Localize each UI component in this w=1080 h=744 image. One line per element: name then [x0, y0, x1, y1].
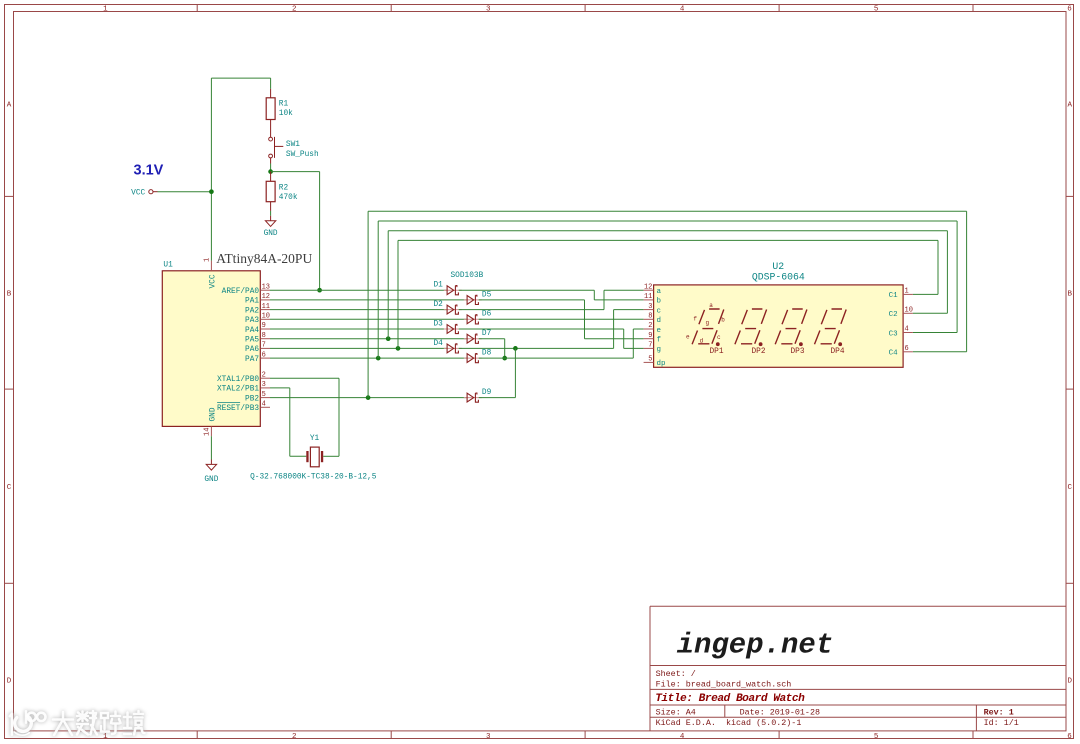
svg-text:R2: R2	[279, 185, 289, 193]
svg-text:QDSP-6064: QDSP-6064	[752, 272, 805, 283]
svg-text:8: 8	[262, 332, 266, 340]
svg-text:10: 10	[262, 313, 270, 321]
wire D9 riser to D4 net	[479, 397, 516, 399]
U1 pin 7 PA6	[260, 347, 270, 349]
svg-text:ingep.net: ingep.net	[677, 629, 834, 662]
U2 pin 6 C4	[903, 351, 913, 353]
wire D6 to pin d net	[479, 318, 644, 320]
svg-text:4: 4	[680, 733, 685, 741]
diode D9	[464, 397, 482, 399]
svg-text:KiCad E.D.A. kicad (5.0.2)-1: KiCad E.D.A. kicad (5.0.2)-1	[656, 718, 802, 728]
svg-text:7: 7	[648, 342, 652, 350]
U2 pin 8 d	[644, 318, 654, 320]
svg-text:File: bread_board_watch.sch: File: bread_board_watch.sch	[656, 679, 792, 689]
svg-text:6: 6	[1067, 733, 1072, 741]
diode D8	[464, 357, 482, 359]
wire D8 to pin e net	[479, 357, 634, 359]
svg-text:PA7: PA7	[245, 356, 259, 364]
wire PA6 to C1 net	[397, 240, 399, 348]
wire PA7 to D8	[270, 357, 467, 359]
svg-text:470k: 470k	[279, 194, 298, 202]
wire D2 to pin a net	[459, 309, 604, 311]
svg-text:12: 12	[262, 293, 270, 301]
svg-text:6: 6	[262, 351, 266, 359]
svg-text:R1: R1	[279, 101, 289, 109]
svg-text:D5: D5	[482, 291, 492, 299]
svg-text:Id: 1/1: Id: 1/1	[984, 718, 1019, 728]
U2 digit 3	[775, 309, 807, 344]
svg-text:11: 11	[262, 303, 270, 311]
U1 pin 12 PA1	[260, 299, 270, 301]
svg-text:13: 13	[262, 283, 270, 291]
svg-text:DP1: DP1	[709, 348, 723, 356]
diode D7	[464, 338, 482, 340]
wire top to R1	[211, 77, 270, 79]
svg-text:4: 4	[905, 326, 909, 334]
svg-text:1: 1	[103, 6, 108, 14]
wire PA2 to D2	[270, 309, 447, 311]
wire PA3 to D6	[270, 318, 467, 320]
svg-text:3: 3	[648, 303, 652, 311]
ground symbol below R2	[270, 216, 272, 221]
wire PB2 to C4 net	[367, 211, 369, 397]
svg-text:D1: D1	[434, 282, 444, 290]
svg-text:dp: dp	[657, 360, 666, 368]
svg-text:AREF/PA0: AREF/PA0	[222, 288, 260, 296]
svg-text:2: 2	[292, 6, 297, 14]
switch SW1	[269, 137, 273, 141]
diode D4	[444, 347, 462, 349]
diode D2	[444, 309, 462, 311]
U1 pin 8 PA5	[260, 338, 270, 340]
wire PA5 to C2 net	[387, 231, 389, 339]
svg-text:Date: 2019-01-28: Date: 2019-01-28	[740, 707, 820, 717]
svg-text:C: C	[7, 484, 12, 492]
junction on AREF/PA0	[317, 288, 322, 293]
wire PA7 to C3 net	[377, 221, 379, 358]
svg-text:A: A	[1068, 102, 1073, 110]
svg-text:C: C	[1068, 484, 1073, 492]
junction D7 joins D8 net	[502, 356, 507, 361]
junction PA6 riser	[396, 346, 401, 351]
resistor R1	[266, 98, 275, 120]
svg-text:d: d	[700, 337, 704, 344]
svg-text:11: 11	[644, 293, 652, 301]
wire vertical VCC rail	[210, 78, 212, 261]
IC U2 body	[654, 285, 904, 367]
wire AREF/PA0 to D1	[270, 289, 447, 291]
svg-text:GND: GND	[264, 230, 278, 238]
U2 decimal point DP4	[838, 342, 842, 346]
U2 decimal point DP2	[759, 342, 763, 346]
U2 pin 9 f	[644, 338, 654, 340]
U2 pin 10 C2	[903, 312, 913, 314]
U1 pin 13 AREF/PA0	[260, 289, 270, 291]
svg-text:e: e	[686, 333, 690, 340]
svg-text:PA6: PA6	[245, 346, 259, 354]
svg-text:6: 6	[1067, 6, 1072, 14]
svg-text:D2: D2	[434, 301, 444, 309]
U2 pin 12 a	[644, 289, 654, 291]
svg-text:PB2: PB2	[245, 395, 259, 403]
svg-text:5: 5	[648, 356, 652, 364]
junction below SW1	[268, 169, 273, 174]
U2 pin 7 g	[644, 347, 654, 349]
svg-text:Rev: 1: Rev: 1	[984, 707, 1014, 717]
svg-text:b: b	[657, 298, 662, 306]
svg-text:4: 4	[680, 6, 685, 14]
svg-text:f: f	[693, 316, 697, 323]
ground symbol below U1	[210, 460, 212, 465]
svg-text:1: 1	[905, 288, 909, 296]
svg-text:XTAL2/PB1: XTAL2/PB1	[217, 386, 259, 394]
svg-text:12: 12	[644, 283, 652, 291]
U2 digit 4	[815, 309, 847, 344]
svg-text:5: 5	[262, 391, 266, 399]
svg-text:a: a	[709, 302, 713, 309]
wire VCC to junction	[153, 191, 158, 193]
svg-text:D4: D4	[434, 340, 444, 348]
svg-text:2: 2	[292, 733, 297, 741]
wire U1 GND down	[210, 436, 212, 459]
U2 pin 3 c	[644, 309, 654, 311]
svg-text:4: 4	[262, 401, 266, 409]
svg-text:c: c	[657, 307, 662, 315]
svg-text:b: b	[721, 317, 725, 324]
IC U1 body	[162, 271, 260, 427]
U1 pin 9 PA4	[260, 328, 270, 330]
wire D7 joins D8 net	[479, 338, 505, 340]
U1 pin 3 XTAL2/PB1	[260, 387, 270, 389]
svg-text:VCC: VCC	[131, 189, 145, 197]
svg-text:D9: D9	[482, 389, 492, 397]
wire XTAL2 net	[270, 387, 290, 389]
diode D3	[444, 328, 462, 330]
svg-text:SOD103B: SOD103B	[451, 272, 484, 280]
svg-text:RESET/PB3: RESET/PB3	[217, 405, 259, 413]
resistor R2	[270, 172, 272, 182]
svg-text:GND: GND	[204, 476, 218, 484]
U2 pin 2 e	[644, 328, 654, 330]
svg-text:DP4: DP4	[830, 348, 844, 356]
svg-text:1: 1	[203, 258, 211, 262]
wire PA4 to D3	[270, 328, 447, 330]
svg-text:SW1: SW1	[286, 141, 300, 149]
svg-text:D8: D8	[482, 350, 492, 358]
junction D9 joins D4 net	[513, 346, 518, 351]
svg-text:e: e	[657, 327, 662, 335]
junction PA7 riser	[376, 356, 381, 361]
wire R2 bottom lead	[270, 202, 272, 211]
wire junction to AREF riser	[271, 171, 320, 173]
wire SW1 to junction	[270, 158, 272, 164]
title block outline	[650, 606, 1066, 731]
wire D5 to pin f net	[479, 299, 585, 301]
U2 pin 4 C3	[903, 332, 913, 334]
U2 digit 1	[692, 309, 724, 344]
wire R1 top lead	[270, 78, 272, 89]
U1 pin 6 PA7	[260, 357, 270, 359]
svg-text:PA2: PA2	[245, 307, 259, 315]
svg-text:Title: Bread Board Watch: Title: Bread Board Watch	[655, 693, 805, 705]
svg-text:Size: A4: Size: A4	[656, 707, 696, 717]
svg-text:C2: C2	[889, 311, 898, 319]
frame column ticks top/bottom	[196, 5, 198, 12]
svg-text:1: 1	[103, 733, 108, 741]
diode D1	[444, 289, 462, 291]
svg-text:D: D	[7, 677, 12, 685]
svg-text:VCC: VCC	[210, 274, 218, 288]
U1 pin 1 VCC top	[210, 261, 212, 271]
wire D1 to pin b net	[459, 289, 595, 291]
U2 pin 1 C1	[903, 293, 913, 295]
U1 pin 10 PA3	[260, 318, 270, 320]
svg-text:10: 10	[905, 307, 913, 315]
U2 decimal point DP3	[799, 342, 803, 346]
wire PA6 to D4	[270, 347, 447, 349]
svg-text:g: g	[657, 346, 662, 354]
svg-text:5: 5	[874, 6, 879, 14]
power flag VCC	[149, 190, 153, 194]
junction VCC rail	[209, 189, 214, 194]
svg-text:A: A	[7, 102, 12, 110]
svg-text:SW_Push: SW_Push	[286, 151, 319, 159]
wire PA1 to D5	[270, 299, 467, 301]
svg-text:10k: 10k	[279, 110, 293, 118]
svg-text:PA4: PA4	[245, 327, 259, 335]
svg-text:XTAL1/PB0: XTAL1/PB0	[217, 376, 259, 384]
svg-text:d: d	[657, 317, 662, 325]
svg-text:2: 2	[648, 322, 652, 330]
svg-text:Q-32.768000K-TC38-20-B-12,5: Q-32.768000K-TC38-20-B-12,5	[250, 473, 377, 481]
svg-text:D6: D6	[482, 311, 492, 319]
svg-text:6: 6	[905, 345, 909, 353]
junction PA5 riser	[386, 336, 391, 341]
wire PA5 to D7	[270, 338, 467, 340]
svg-text:B: B	[1068, 290, 1073, 298]
junction PB2 riser	[366, 395, 371, 400]
svg-text:3: 3	[486, 6, 491, 14]
svg-text:D7: D7	[482, 330, 492, 338]
U1 pin 4 RESET/PB3	[260, 406, 270, 408]
svg-text:3: 3	[486, 733, 491, 741]
svg-text:14: 14	[203, 428, 211, 436]
svg-text:a: a	[657, 288, 662, 296]
svg-text:C1: C1	[889, 292, 899, 300]
svg-text:g: g	[705, 319, 709, 326]
U2 decimal point DP1	[716, 342, 720, 346]
U1 pin 2 XTAL1/PB0	[260, 377, 270, 379]
svg-text:5: 5	[874, 733, 879, 741]
U1 pin 5 PB2	[260, 397, 270, 399]
watermark logo and text	[10, 711, 145, 735]
svg-text:f: f	[657, 337, 662, 345]
svg-text:Sheet: /: Sheet: /	[656, 669, 696, 679]
wire D4 to pin c net	[459, 347, 614, 349]
wire PB2 to D9	[270, 397, 467, 399]
svg-text:3: 3	[262, 381, 266, 389]
svg-text:D: D	[1068, 677, 1073, 685]
svg-text:2: 2	[262, 371, 266, 379]
wire R1 bottom lead	[270, 120, 272, 138]
diode D5	[464, 299, 482, 301]
svg-text:U1: U1	[163, 262, 173, 270]
svg-text:PA5: PA5	[245, 337, 259, 345]
U1 pin 11 PA2	[260, 309, 270, 311]
svg-text:D3: D3	[434, 320, 444, 328]
wire XTAL1 net	[270, 377, 339, 379]
frame row ticks left/right	[5, 195, 14, 197]
U2 digit 2	[735, 309, 767, 344]
svg-text:DP3: DP3	[790, 348, 804, 356]
svg-text:C4: C4	[889, 350, 899, 358]
svg-text:PA1: PA1	[245, 298, 259, 306]
svg-text:B: B	[7, 290, 12, 298]
svg-text:8: 8	[648, 313, 652, 321]
crystal Y1	[306, 451, 308, 462]
svg-text:ATtiny84A-20PU: ATtiny84A-20PU	[216, 251, 312, 266]
svg-text:DP2: DP2	[751, 348, 765, 356]
wire riser to AREF/PA0	[319, 172, 321, 291]
svg-text:c: c	[717, 334, 721, 341]
svg-text:7: 7	[262, 342, 266, 350]
svg-text:PA3: PA3	[245, 317, 259, 325]
svg-text:Y1: Y1	[310, 435, 320, 443]
diode D6	[464, 318, 482, 320]
svg-text:3.1V: 3.1V	[134, 162, 164, 178]
svg-text:9: 9	[648, 332, 652, 340]
wire D3 to pin g net	[459, 328, 624, 330]
svg-text:9: 9	[262, 322, 266, 330]
svg-text:C3: C3	[889, 330, 899, 338]
U2 pin 5 dp	[644, 361, 654, 363]
U2 pin 11 b	[644, 299, 654, 301]
U1 pin 14 GND bottom	[210, 426, 212, 436]
